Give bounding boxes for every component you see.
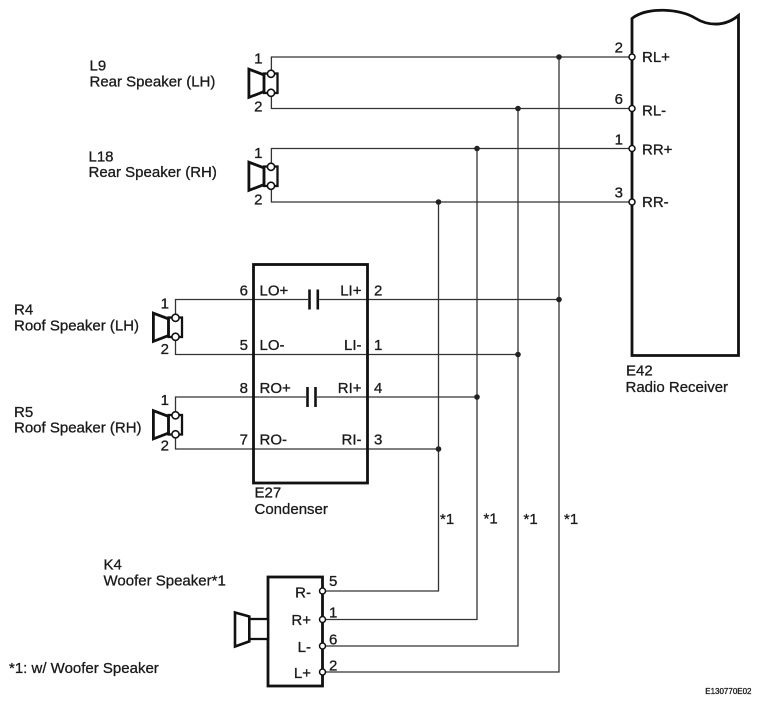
svg-text:LI+: LI+: [340, 283, 362, 300]
svg-text:1: 1: [161, 392, 169, 409]
junction dot RI- / R- branch: [436, 446, 442, 452]
wire woofer L- branch : vertical from RL- down to K4 pin 6: [323, 109, 519, 647]
pin 1 circle of E42: [629, 146, 635, 152]
svg-text:R-: R-: [295, 584, 311, 601]
svg-text:1: 1: [615, 132, 623, 149]
svg-text:1: 1: [161, 296, 169, 313]
speaker R5: [153, 411, 182, 439]
svg-text:E27: E27: [255, 485, 282, 502]
svg-text:1: 1: [329, 605, 337, 622]
svg-text:Woofer Speaker*1: Woofer Speaker*1: [104, 573, 226, 590]
capacitor (left channel) plates: [310, 290, 318, 310]
svg-text:R+: R+: [291, 612, 311, 629]
svg-text:6: 6: [240, 283, 248, 300]
svg-text:RO-: RO-: [260, 432, 288, 449]
svg-text:RI-: RI-: [342, 432, 362, 449]
pin 1 circle of K4: [320, 617, 326, 623]
svg-text:1: 1: [374, 337, 382, 354]
svg-text:RR-: RR-: [642, 194, 669, 211]
svg-text:3: 3: [615, 185, 623, 202]
svg-text:6: 6: [615, 91, 623, 108]
wire LO-/LI- pass-through to junction: [254, 354, 519, 356]
svg-text:5: 5: [240, 337, 248, 354]
speaker L9: [249, 69, 278, 97]
radio receiver box E42: [632, 10, 739, 355]
pin 5 circle of K4: [320, 588, 326, 594]
wire woofer R- branch : vertical from RR- down to K4 pin 5: [323, 202, 439, 591]
svg-text:7: 7: [240, 432, 248, 449]
svg-text:Condenser: Condenser: [255, 501, 328, 518]
junction dot LI- / L- branch: [515, 352, 521, 358]
junction dot RL- / L- branch: [515, 106, 521, 112]
svg-text:8: 8: [240, 380, 248, 397]
svg-text:L-: L-: [298, 639, 311, 656]
wire woofer R+ branch : vertical from RR+ down to K4 pin 1: [323, 149, 478, 620]
wire RR+ : L18 pin1 to E42 pin1: [271, 149, 632, 164]
svg-text:LI-: LI-: [344, 337, 362, 354]
pin 2 circle of E42: [629, 54, 635, 60]
wire RL+ : L9 pin1 to E42 pin2: [271, 57, 632, 70]
wire RO- : R5 pin2 to E27 pin7: [176, 437, 254, 449]
svg-text:Roof Speaker (RH): Roof Speaker (RH): [14, 420, 142, 437]
junction dot RR- / R- branch: [436, 199, 442, 205]
svg-text:RL-: RL-: [642, 103, 666, 120]
wire RI+ : capacitor to junction: [317, 396, 477, 398]
svg-text:L9: L9: [90, 58, 107, 75]
svg-text:E130770E02: E130770E02: [705, 687, 752, 696]
svg-text:2: 2: [254, 99, 262, 116]
wire RO+ : R5 pin1 to E27 pin8: [176, 397, 254, 412]
svg-text:2: 2: [329, 658, 337, 675]
svg-text:1: 1: [254, 51, 262, 68]
svg-text:*1: *1: [564, 511, 578, 528]
wire RL- : L9 pin2 to E42 pin6: [271, 97, 632, 109]
svg-text:2: 2: [254, 192, 262, 209]
svg-text:1: 1: [254, 145, 262, 162]
junction dot LI+ / L+ branch: [556, 297, 562, 303]
wire RO+ inside E27 to capacitor: [254, 396, 307, 398]
pin 6 circle of K4: [320, 643, 326, 649]
wire RO-/RI- pass-through to junction: [254, 448, 439, 450]
junction dot RR+ / R+ branch: [474, 146, 480, 152]
capacitor (right channel) plates: [308, 387, 316, 407]
wire LO+ inside E27 to capacitor: [254, 299, 309, 301]
condenser box E27: [254, 265, 368, 484]
svg-text:2: 2: [161, 341, 169, 358]
svg-text:Rear Speaker (LH): Rear Speaker (LH): [90, 74, 216, 91]
pin 6 circle of E42: [629, 106, 635, 112]
svg-text:E42: E42: [626, 363, 653, 380]
wire woofer L+ branch : vertical from RL+ down to K4 pin 2: [323, 57, 560, 672]
svg-text:6: 6: [329, 632, 337, 649]
pin 2 circle of K4: [320, 669, 326, 675]
svg-text:3: 3: [374, 432, 382, 449]
svg-text:LO-: LO-: [260, 337, 285, 354]
svg-text:*1: *1: [524, 511, 538, 528]
svg-text:Roof Speaker (LH): Roof Speaker (LH): [14, 318, 139, 335]
svg-text:5: 5: [329, 573, 337, 590]
svg-text:K4: K4: [104, 557, 122, 574]
wire LO- : R4 pin2 to E27 pin5: [176, 340, 254, 355]
pin 3 circle of E42: [629, 199, 635, 205]
svg-text:*1: *1: [440, 511, 454, 528]
wire LI+ : capacitor to junction on RL+ branch: [319, 299, 559, 301]
svg-text:RO+: RO+: [260, 380, 292, 397]
speaker R4: [153, 313, 182, 341]
woofer box K4: [268, 577, 323, 686]
svg-text:*1: w/ Woofer Speaker: *1: w/ Woofer Speaker: [9, 660, 159, 677]
wire RR- : L18 pin2 to E42 pin3: [271, 189, 632, 202]
woofer cone: [235, 613, 268, 647]
svg-text:Rear Speaker (RH): Rear Speaker (RH): [89, 164, 217, 181]
svg-text:RL+: RL+: [642, 49, 670, 66]
svg-text:RI+: RI+: [338, 380, 362, 397]
svg-text:4: 4: [374, 380, 382, 397]
speaker L18: [249, 162, 278, 190]
svg-text:L18: L18: [89, 149, 114, 166]
junction dot RL+ / L+ branch: [556, 54, 562, 60]
svg-text:2: 2: [615, 40, 623, 57]
svg-text:RR+: RR+: [642, 142, 673, 159]
svg-text:R5: R5: [14, 404, 33, 421]
svg-text:2: 2: [161, 438, 169, 455]
junction dot RI+ / R+ branch: [474, 394, 480, 400]
wire LO+ : R4 pin1 to E27 pin6: [176, 300, 254, 316]
svg-text:L+: L+: [294, 665, 311, 682]
svg-text:*1: *1: [484, 511, 498, 528]
svg-text:2: 2: [374, 283, 382, 300]
svg-text:LO+: LO+: [260, 283, 289, 300]
svg-text:R4: R4: [14, 302, 33, 319]
svg-text:Radio Receiver: Radio Receiver: [626, 379, 729, 396]
